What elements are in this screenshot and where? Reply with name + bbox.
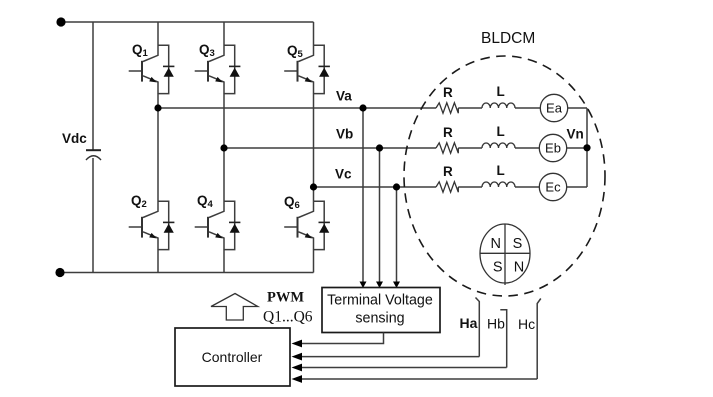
- svg-text:Vc: Vc: [335, 167, 352, 182]
- svg-text:N: N: [514, 260, 524, 276]
- svg-text:Eb: Eb: [545, 141, 561, 156]
- svg-text:Controller: Controller: [202, 349, 263, 365]
- svg-text:Vb: Vb: [336, 127, 353, 142]
- svg-text:Q1...Q6: Q1...Q6: [263, 309, 313, 326]
- svg-text:Terminal Voltage: Terminal Voltage: [327, 293, 433, 309]
- svg-text:sensing: sensing: [355, 311, 404, 327]
- svg-text:Hb: Hb: [487, 316, 505, 332]
- svg-text:L: L: [497, 124, 505, 139]
- svg-text:L: L: [497, 163, 505, 178]
- svg-text:Va: Va: [336, 89, 352, 104]
- svg-text:PWM: PWM: [267, 290, 304, 306]
- svg-text:L: L: [497, 84, 505, 99]
- svg-text:Ea: Ea: [546, 101, 563, 116]
- svg-text:S: S: [513, 236, 523, 252]
- svg-text:Q4: Q4: [197, 193, 214, 210]
- svg-text:Q6: Q6: [284, 194, 300, 211]
- svg-text:N: N: [490, 236, 500, 252]
- svg-text:R: R: [443, 164, 453, 179]
- svg-text:Ha: Ha: [460, 315, 478, 331]
- svg-text:Ec: Ec: [545, 180, 561, 195]
- svg-text:Hc: Hc: [518, 316, 535, 332]
- svg-text:Q2: Q2: [131, 193, 147, 210]
- svg-text:Vdc: Vdc: [62, 131, 87, 146]
- svg-text:Q5: Q5: [287, 43, 304, 60]
- svg-text:Q3: Q3: [199, 42, 215, 59]
- svg-text:Q1: Q1: [132, 42, 149, 59]
- svg-text:Vn: Vn: [567, 127, 584, 142]
- svg-text:S: S: [493, 260, 503, 276]
- svg-text:BLDCM: BLDCM: [481, 30, 535, 47]
- svg-text:R: R: [443, 85, 453, 100]
- svg-text:R: R: [443, 125, 453, 140]
